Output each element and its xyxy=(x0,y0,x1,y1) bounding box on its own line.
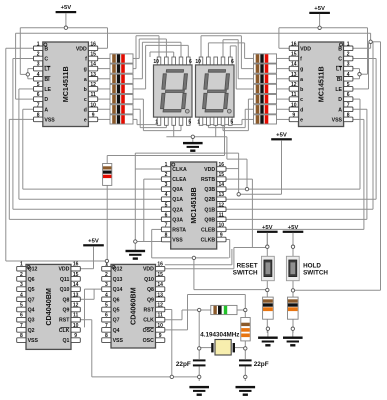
node R16 bottom xyxy=(291,327,294,330)
resistor R2 1k (segment g) left xyxy=(110,64,133,73)
node +5V left xyxy=(64,26,67,29)
wire hold switch top xyxy=(292,233,294,256)
svg-text:Q8: Q8 xyxy=(62,297,69,303)
svg-text:CLK: CLK xyxy=(59,328,70,334)
svg-text:Q0B: Q0B xyxy=(204,217,215,223)
svg-text:MC14511B: MC14511B xyxy=(61,66,70,102)
IC body CD4040BM [U4] xyxy=(26,264,71,349)
svg-text:Q6: Q6 xyxy=(113,297,120,303)
MC14518B pin 15 (RSTB) [U3] xyxy=(217,177,226,182)
CD4040BM pin 10 (CLK) [U4] xyxy=(71,328,80,333)
wire R4(b) to DS1 pin6 xyxy=(133,88,146,90)
svg-text:Q0A: Q0A xyxy=(172,187,183,193)
resistor R16 10k (hold pull-down) xyxy=(288,297,299,319)
resistor R8 1k (segment f) right xyxy=(254,54,277,63)
svg-text:14: 14 xyxy=(157,282,163,288)
svg-text:CLK: CLK xyxy=(143,318,154,324)
wire CD4040.Q8 riser xyxy=(80,298,94,300)
CD4060BM pin 6 (Q7) [U5] xyxy=(102,317,111,322)
resistor R19 1k (clock line) xyxy=(103,164,112,186)
svg-text:9: 9 xyxy=(292,112,295,118)
MC14518B pin 14 (Q3B) [U3] xyxy=(217,187,226,192)
wire hold switch bottom to R16 xyxy=(292,281,294,297)
wire CD4060.Q14 to CD4040.CLK xyxy=(85,288,102,290)
svg-text:RSTA: RSTA xyxy=(172,227,186,233)
svg-text:Q1B: Q1B xyxy=(204,207,215,213)
MC14511B pin 8 (VSS) [U2] xyxy=(344,117,353,122)
wire R7(e) to DS1 pin1 xyxy=(133,118,137,120)
CD4040BM pin 11 (RST) [U4] xyxy=(71,317,80,322)
svg-text:Q3B: Q3B xyxy=(204,187,215,193)
svg-text:1: 1 xyxy=(155,120,158,126)
node reset +5V xyxy=(266,245,269,248)
svg-text:Q2A: Q2A xyxy=(172,207,183,213)
svg-text:6: 6 xyxy=(20,313,23,319)
wire U2.A bus to U3.Q0B xyxy=(353,108,367,110)
svg-text:BI: BI xyxy=(337,77,343,83)
svg-text:RST: RST xyxy=(59,318,70,324)
CD4040BM pin 5 (Q4) [U4] xyxy=(17,307,26,312)
svg-text:+5V: +5V xyxy=(314,6,325,12)
svg-text:10: 10 xyxy=(219,222,225,228)
CD4040BM pin 2 (Q6) [U4] xyxy=(17,277,26,282)
svg-text:8: 8 xyxy=(37,112,40,118)
CD4060BM pin 12 (RST) [U5] xyxy=(156,307,165,312)
node crystal left xyxy=(198,347,201,350)
svg-text:11: 11 xyxy=(158,313,164,319)
svg-text:9: 9 xyxy=(159,333,162,339)
CD4040BM pin 16 (VDD) [U4] xyxy=(71,266,80,271)
svg-text:Q10: Q10 xyxy=(144,277,154,283)
resistor R5 1k (segment c) left xyxy=(110,95,133,104)
CD4060BM pin 13 (Q9) [U5] xyxy=(156,297,165,302)
MC14511B pin 16 (VDD) [U2] xyxy=(289,46,298,51)
svg-text:3: 3 xyxy=(347,62,350,68)
MC14518B pin 7 (RSTA) [U3] xyxy=(161,227,170,232)
svg-text:LT: LT xyxy=(44,67,51,73)
MC14518B pin 13 (Q2B) [U3] xyxy=(217,197,226,202)
svg-text:10: 10 xyxy=(195,59,201,65)
node J1 Q3B xyxy=(245,187,248,190)
resistor R3 1k (segment a) left xyxy=(110,74,133,83)
MC14518B pin 10 (CLEB) [U3] xyxy=(217,227,226,232)
MC14511B pin 7 (A) [U1] xyxy=(34,107,43,112)
MC14518B pin 6 (Q3A) [U3] xyxy=(161,217,170,222)
wire U1 output stub 7 xyxy=(98,118,110,120)
svg-text:4: 4 xyxy=(105,292,108,298)
svg-text:SWITCH: SWITCH xyxy=(233,269,258,276)
wire R9(g) to DS2 pin10 xyxy=(241,68,253,70)
svg-text:5: 5 xyxy=(105,303,108,309)
svg-text:Q5: Q5 xyxy=(113,308,120,314)
wire R15 to ground xyxy=(266,319,268,333)
svg-text:SWITCH: SWITCH xyxy=(303,269,328,276)
wire R2(g) to DS1 pin10 xyxy=(133,68,136,70)
svg-text:3: 3 xyxy=(20,282,23,288)
svg-text:11: 11 xyxy=(90,92,96,98)
wire U2.B stub to node xyxy=(353,47,371,49)
wire +5V to U3.VDD xyxy=(281,140,283,194)
svg-text:VSS: VSS xyxy=(44,117,55,123)
wire R6(d) to DS1 pin2 xyxy=(133,108,140,110)
wire reset switch top xyxy=(266,233,268,256)
svg-text:Q8: Q8 xyxy=(147,287,154,293)
resistor R7 1k (segment e) left xyxy=(110,115,133,124)
svg-text:16: 16 xyxy=(157,262,163,268)
wire U2 input stub 5 xyxy=(277,98,290,100)
svg-text:HOLD: HOLD xyxy=(303,262,321,269)
svg-text:CLEB: CLEB xyxy=(201,227,215,233)
wire crystal left node to R17 xyxy=(199,309,211,311)
svg-text:4.194304MHz: 4.194304MHz xyxy=(200,331,239,338)
svg-text:CD4060BM: CD4060BM xyxy=(129,287,138,325)
svg-text:+5V: +5V xyxy=(88,238,99,244)
wire top-right corner xyxy=(371,41,381,43)
wire U2.C bus to U3.Q2B xyxy=(353,57,376,59)
svg-text:9: 9 xyxy=(92,112,95,118)
wire reset node drop to switch xyxy=(193,258,195,290)
MC14511B pin 2 (C) [U1] xyxy=(34,56,43,61)
wire R1(f) to DS1 pin9 xyxy=(133,57,139,59)
wire U1 output stub 1 xyxy=(98,57,110,59)
MC14518B pin 5 (Q2A) [U3] xyxy=(161,207,170,212)
CD4040BM pin 14 (Q10) [U4] xyxy=(71,287,80,292)
resistor R1 1k (segment f) left xyxy=(110,54,133,63)
svg-text:VDD: VDD xyxy=(204,167,215,173)
svg-text:5: 5 xyxy=(188,120,191,126)
svg-text:b: b xyxy=(300,87,303,93)
wire U3.RSTB to reset rail xyxy=(226,178,252,180)
svg-text:RESET: RESET xyxy=(237,262,258,269)
resistor R9 1k (segment g) right xyxy=(254,64,277,73)
svg-text:Q1A: Q1A xyxy=(172,197,183,203)
svg-text:Q10: Q10 xyxy=(60,287,70,293)
svg-text:14: 14 xyxy=(219,182,225,188)
wire U1 output stub 4 xyxy=(98,88,110,90)
svg-text:4: 4 xyxy=(37,72,40,78)
wire display commons to ground node xyxy=(166,136,227,138)
svg-text:6: 6 xyxy=(105,313,108,319)
wire U3.VSS to ground xyxy=(135,241,161,243)
svg-text:5: 5 xyxy=(37,82,40,88)
MC14511B pin 11 (c) [U2] xyxy=(289,97,298,102)
resistor R15 10k (reset pull-down) xyxy=(263,297,274,319)
wire U2.LE riser xyxy=(353,88,369,90)
resistor R12 1k (segment c) right xyxy=(254,95,277,104)
wire U1.D to top bus xyxy=(16,98,34,100)
svg-text:LE: LE xyxy=(44,87,51,93)
svg-text:C: C xyxy=(338,57,342,63)
MC14518B pin 1 (CLKA) [U3] xyxy=(161,167,170,172)
MC14518B pin 11 (Q0B) [U3] xyxy=(217,217,226,222)
svg-text:4: 4 xyxy=(20,292,23,298)
svg-text:B: B xyxy=(44,46,48,52)
node +5V right xyxy=(318,26,321,29)
resistor R4 1k (segment b) left xyxy=(110,84,133,93)
MC14511B pin 10 (d) [U1] xyxy=(88,107,97,112)
ground below R15 xyxy=(267,330,269,336)
svg-text:10: 10 xyxy=(291,102,297,108)
CD4060BM pin 2 (Q13) [U5] xyxy=(102,277,111,282)
MC14511B pin 3 (LT) [U2] xyxy=(344,66,353,71)
CD4060BM pin 14 (Q8) [U5] xyxy=(156,287,165,292)
wire U2 input stub 1 xyxy=(277,57,290,59)
svg-text:7: 7 xyxy=(165,222,168,228)
wire U1.C bus to U3.Q2A xyxy=(13,57,34,59)
svg-text:Q4: Q4 xyxy=(28,308,35,314)
MC14511B pin 14 (g) [U1] xyxy=(88,66,97,71)
svg-text:CLEA: CLEA xyxy=(172,177,186,183)
MC14511B pin 3 (LT) [U1] xyxy=(34,66,43,71)
svg-text:8: 8 xyxy=(20,333,23,339)
svg-text:13: 13 xyxy=(90,72,96,78)
CD4060BM pin 4 (Q6) [U5] xyxy=(102,297,111,302)
MC14511B pin 11 (c) [U1] xyxy=(88,97,97,102)
svg-text:CLKA: CLKA xyxy=(172,167,187,173)
svg-text:11: 11 xyxy=(291,92,297,98)
svg-text:CD4040BM: CD4040BM xyxy=(44,288,53,326)
svg-text:12: 12 xyxy=(157,303,163,309)
node ground bus C1 xyxy=(198,375,201,378)
svg-text:2: 2 xyxy=(105,272,108,278)
MC14511B pin 6 (D) [U1] xyxy=(34,97,43,102)
CD4060BM pin 16 (VDD) [U5] xyxy=(156,266,165,271)
MC14511B pin 15 (f) [U2] xyxy=(289,56,298,61)
svg-text:14: 14 xyxy=(73,282,79,288)
svg-text:OSC: OSC xyxy=(143,338,154,344)
MC14518B pin 4 (Q1A) [U3] xyxy=(161,197,170,202)
svg-text:OSC: OSC xyxy=(143,328,154,334)
MC14511B pin 2 (C) [U2] xyxy=(344,56,353,61)
svg-text:12: 12 xyxy=(219,202,225,208)
svg-text:4: 4 xyxy=(347,72,350,78)
svg-text:b: b xyxy=(84,87,87,93)
wire U1.VSS bus to U3.Q3A xyxy=(9,118,33,120)
svg-text:7: 7 xyxy=(347,102,350,108)
svg-text:6: 6 xyxy=(37,92,40,98)
svg-text:Q2B: Q2B xyxy=(204,197,215,203)
wire hold switch to long bus xyxy=(293,289,381,291)
svg-text:12: 12 xyxy=(90,82,96,88)
wire +5V branch to U2 LT/BI xyxy=(367,28,369,74)
svg-text:VDD: VDD xyxy=(58,267,69,273)
node hold +5V xyxy=(291,245,294,248)
svg-text:Q12: Q12 xyxy=(28,267,38,273)
wire U1 LT/BI bracket xyxy=(28,68,34,70)
wire R18 to crystal right xyxy=(244,341,246,359)
svg-text:MC14511B: MC14511B xyxy=(317,66,326,102)
wire DS1 common pins xyxy=(173,125,175,137)
wire R3(a) to DS1 pin7 xyxy=(133,78,142,80)
svg-text:B: B xyxy=(338,46,342,52)
svg-text:Q14: Q14 xyxy=(113,287,123,293)
MC14518B pin 8 (VSS) [U3] xyxy=(161,237,170,242)
MC14511B pin 7 (A) [U2] xyxy=(344,107,353,112)
wire hold switch long bus xyxy=(380,42,382,290)
svg-text:D: D xyxy=(44,97,48,103)
svg-text:6: 6 xyxy=(165,212,168,218)
resistor R11 1k (segment b) right xyxy=(254,84,277,93)
wire CD4040.VDD to +5V xyxy=(80,268,93,270)
svg-text:BI: BI xyxy=(44,77,50,83)
svg-text:A: A xyxy=(44,107,48,113)
CD4040BM pin 1 (Q12) [U4] xyxy=(17,266,26,271)
wire clock line from R19 xyxy=(106,156,108,164)
wire crystal left lead xyxy=(199,347,211,349)
svg-text:+5V: +5V xyxy=(288,225,299,231)
svg-text:g: g xyxy=(84,67,87,73)
resistor R6 1k (segment d) left xyxy=(110,105,133,114)
svg-text:10: 10 xyxy=(73,323,79,329)
svg-text:c: c xyxy=(84,97,87,103)
svg-text:1: 1 xyxy=(197,120,200,126)
pushbutton HOLD SWITCH xyxy=(286,256,299,280)
wire +5V branch to U1 LT/BI xyxy=(19,28,21,75)
wire U2.VSS bus to U3.CLEB xyxy=(353,118,364,120)
wire U3.CLEA down xyxy=(144,178,162,180)
wire U2 input stub 4 xyxy=(277,88,290,90)
node J2 VDD U3 xyxy=(237,193,240,196)
wire mid riser line xyxy=(165,264,232,266)
wire top bus drop to node xyxy=(370,33,372,42)
svg-text:Q12: Q12 xyxy=(113,267,123,273)
wire R19 bottom to CD4060.Q12 xyxy=(106,185,108,266)
svg-text:2: 2 xyxy=(20,272,23,278)
MC14511B pin 9 (e) [U1] xyxy=(88,117,97,122)
CD4060BM pin 15 (Q10) [U5] xyxy=(156,277,165,282)
wire U1 output stub 2 xyxy=(98,68,110,70)
svg-text:Q3A: Q3A xyxy=(172,217,183,223)
svg-text:5: 5 xyxy=(347,82,350,88)
svg-text:15: 15 xyxy=(291,52,297,58)
svg-text:Q9: Q9 xyxy=(62,308,69,314)
MC14511B pin 5 (LE) [U2] xyxy=(344,87,353,92)
wire DS2 common pin xyxy=(215,125,217,137)
svg-text:14: 14 xyxy=(291,62,297,68)
svg-text:7: 7 xyxy=(20,323,23,329)
node crystal left top xyxy=(198,308,201,311)
CD4040BM pin 15 (Q11) [U4] xyxy=(71,277,80,282)
wire U1.LE bus to U3.Q1A xyxy=(19,88,34,90)
MC14511B pin 12 (b) [U2] xyxy=(289,87,298,92)
node reset line xyxy=(192,256,195,259)
node U3 VSS xyxy=(134,240,137,243)
MC14518B pin 9 (CLKB) [U3] xyxy=(217,237,226,242)
MC14511B pin 14 (g) [U2] xyxy=(289,66,298,71)
svg-text:8: 8 xyxy=(165,233,168,239)
svg-text:Q5: Q5 xyxy=(28,287,35,293)
svg-text:22pF: 22pF xyxy=(254,361,269,368)
svg-text:3: 3 xyxy=(37,62,40,68)
node R15 bottom xyxy=(266,327,269,330)
svg-text:1: 1 xyxy=(347,41,350,47)
svg-text:11: 11 xyxy=(73,313,79,319)
capacitor C2 22pF xyxy=(239,359,252,361)
svg-text:9: 9 xyxy=(74,333,77,339)
wire R14(c) to DS2 pin4 xyxy=(248,98,253,100)
wire U2.D bus to U3.Q3B xyxy=(353,98,360,100)
svg-text:5: 5 xyxy=(20,303,23,309)
CD4040BM pin 13 (Q8) [U4] xyxy=(71,297,80,302)
svg-text:Q4: Q4 xyxy=(113,328,120,334)
node crystal right top xyxy=(244,308,247,311)
svg-text:Q7: Q7 xyxy=(28,297,35,303)
wire U3.RSTA to reset line xyxy=(152,228,162,230)
CD4060BM pin 5 (Q5) [U5] xyxy=(102,307,111,312)
wire U3.CLKA down to ground xyxy=(135,168,161,170)
MC14518B pin 12 (Q1B) [U3] xyxy=(217,207,226,212)
wire U2 input stub 2 xyxy=(277,68,290,70)
wire CD4060.VDD to reset +5V rail xyxy=(165,268,234,270)
node hold bottom xyxy=(291,289,294,292)
svg-text:c: c xyxy=(300,97,303,103)
wire R13(d) to DS2 pin2 xyxy=(245,108,253,110)
wire R5(c) to DS1 pin4 xyxy=(133,98,143,100)
wire C1 to ground xyxy=(198,366,200,381)
wire U1.A bus to U3.Q0A xyxy=(23,108,34,110)
MC14518B pin 2 (CLEA) [U3] xyxy=(161,177,170,182)
svg-text:a: a xyxy=(84,77,87,83)
node U2 LT/BI tie xyxy=(358,73,361,76)
svg-text:8: 8 xyxy=(105,333,108,339)
svg-text:VDD: VDD xyxy=(143,267,154,273)
svg-text:1: 1 xyxy=(37,41,40,47)
svg-text:2: 2 xyxy=(165,172,168,178)
CD4040BM pin 8 (VSS) [U4] xyxy=(17,338,26,343)
MC14511B pin 5 (LE) [U1] xyxy=(34,87,43,92)
MC14511B pin 13 (a) [U1] xyxy=(88,77,97,82)
svg-text:RSTB: RSTB xyxy=(201,177,215,183)
svg-text:8: 8 xyxy=(347,112,350,118)
svg-text:Q3: Q3 xyxy=(28,318,35,324)
ground below U3.VSS xyxy=(126,250,146,252)
IC body CD4060BM [U5] xyxy=(111,264,156,348)
CD4040BM pin 6 (Q3) [U4] xyxy=(17,317,26,322)
svg-text:22pF: 22pF xyxy=(176,361,191,368)
svg-text:9: 9 xyxy=(220,233,223,239)
resistor R10 1k (segment a) right xyxy=(254,74,277,83)
svg-text:Q1: Q1 xyxy=(62,338,69,344)
svg-text:f: f xyxy=(85,57,87,63)
svg-text:13: 13 xyxy=(291,72,297,78)
7-segment display DS2 xyxy=(199,57,203,65)
pushbutton RESET SWITCH xyxy=(262,256,275,280)
svg-text:5: 5 xyxy=(230,120,233,126)
svg-text:A: A xyxy=(338,107,342,113)
node ground bus left xyxy=(170,375,173,378)
wire R11(b) to DS2 pin6 xyxy=(236,88,253,90)
wire top long bus xyxy=(16,32,371,34)
wire osc node to R18 xyxy=(244,310,246,318)
svg-text:LT: LT xyxy=(336,67,343,73)
svg-text:6: 6 xyxy=(347,92,350,98)
CD4040BM pin 3 (Q5) [U4] xyxy=(17,287,26,292)
svg-text:2: 2 xyxy=(37,52,40,58)
svg-text:C: C xyxy=(44,57,48,63)
wire R10(a) to DS2 pin7 xyxy=(238,78,253,80)
wire U1 output stub 3 xyxy=(98,78,110,80)
wire R8(f) to DS2 pin9 xyxy=(245,57,254,59)
wire R12(e) to DS2 pin1 xyxy=(242,118,254,120)
MC14518B pin 3 (Q0A) [U3] xyxy=(161,187,170,192)
MC14511B pin 10 (d) [U2] xyxy=(289,107,298,112)
wire R17 right lead xyxy=(237,309,245,311)
svg-text:15: 15 xyxy=(73,272,79,278)
ground below C1 xyxy=(189,386,209,388)
CD4060BM pin 8 (VSS) [U5] xyxy=(102,338,111,343)
svg-text:13: 13 xyxy=(219,192,225,198)
wire CD4060.OSC- feedback xyxy=(165,329,188,331)
